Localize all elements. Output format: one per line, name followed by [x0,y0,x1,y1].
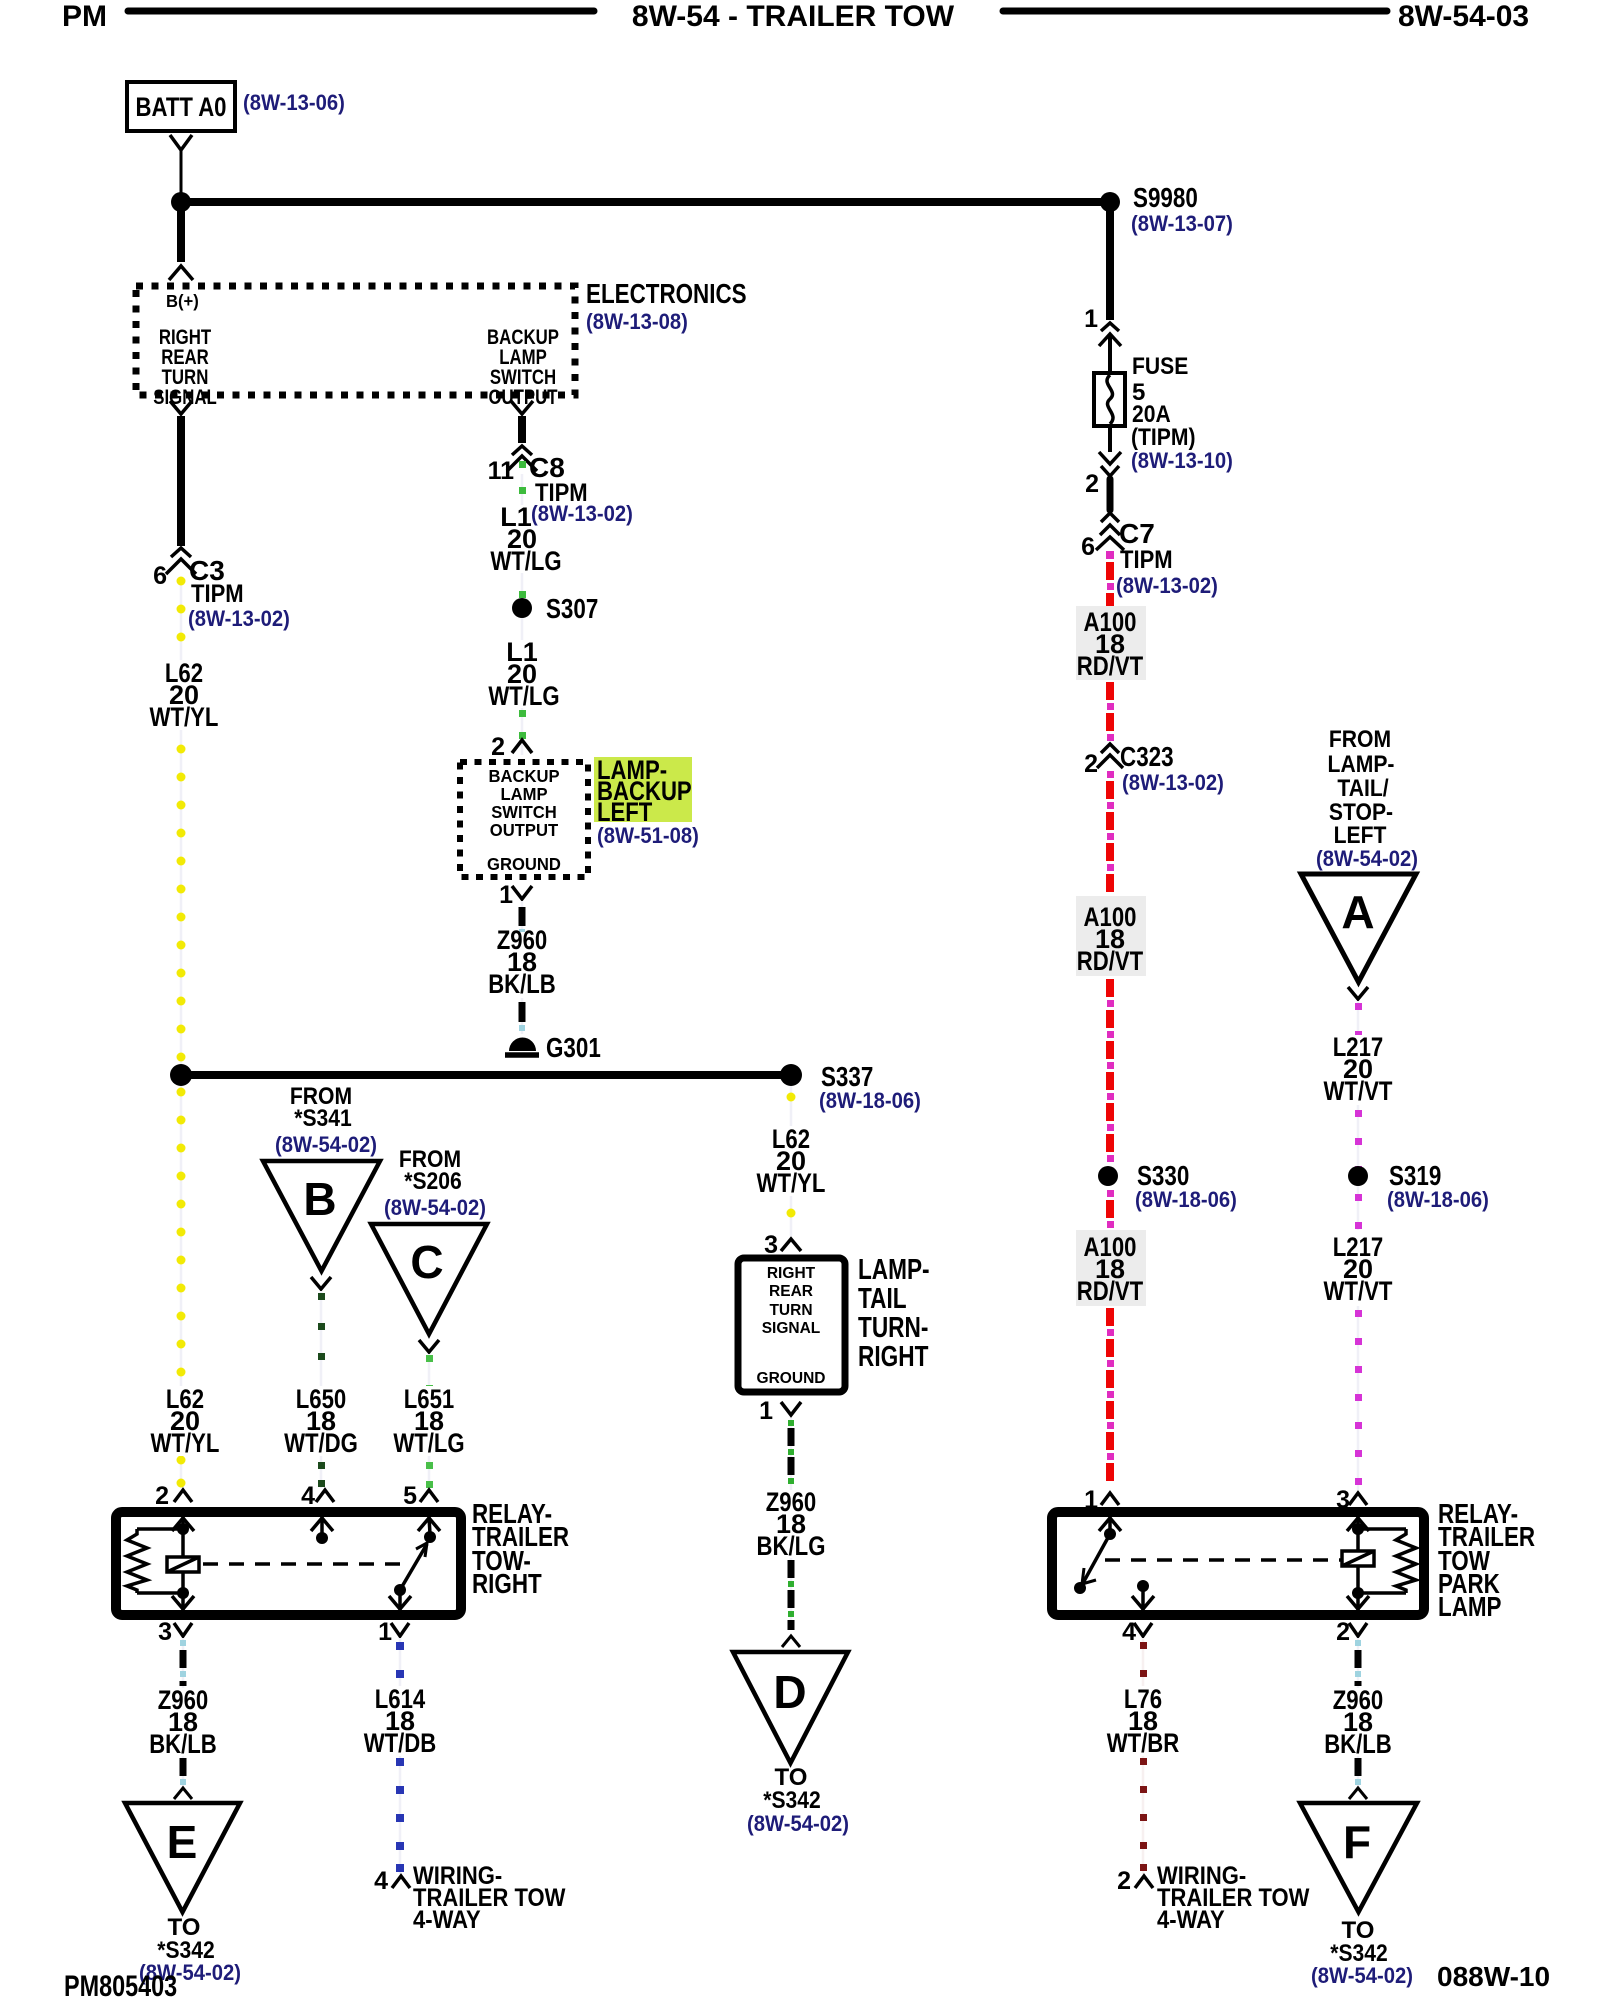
wire A100 18 RD/VT middle [1107,771,1114,1162]
label LAMP-TAIL TURN-RIGHT [858,1254,930,1373]
svg-text:BK/LB: BK/LB [1324,1729,1392,1759]
label S319 [1387,1160,1489,1212]
relay left pin4 stub [311,1517,333,1544]
label TO *S342 (D) [747,1764,849,1836]
label L614 18 WT/DB [362,1684,438,1758]
svg-text:F: F [1343,1816,1371,1868]
svg-text:3: 3 [158,1618,172,1646]
svg-text:(8W-18-06): (8W-18-06) [1387,1187,1489,1212]
module ELECTRONICS dotted box [136,286,575,409]
svg-text:6: 6 [153,562,167,590]
relay right dashed link [1105,1558,1342,1562]
header title 8W-54 - TRAILER TOW [632,0,955,33]
connector C323 label [1120,741,1224,795]
wire L614 18 WT/DB [396,1638,404,1874]
wire stub to C7 [1107,479,1114,510]
relay left dashed link [203,1562,400,1566]
svg-text:11: 11 [488,457,515,485]
label A100 18 RD/VT first [1076,606,1146,681]
ground G301 [505,1032,601,1063]
svg-text:(8W-13-06): (8W-13-06) [243,90,345,115]
splice S330 [1098,1166,1118,1186]
svg-text:2: 2 [491,733,505,761]
svg-text:TURN-: TURN- [858,1312,928,1344]
svg-text:WT/LG: WT/LG [488,681,559,711]
lamp backup left dotted box [460,762,588,877]
connector chevron below BATT A0 [170,135,192,150]
svg-text:5: 5 [403,1482,417,1510]
relay right pin3 arrow up [1347,1518,1369,1531]
svg-text:2: 2 [1336,1618,1350,1646]
svg-text:TAIL: TAIL [858,1283,907,1315]
relay left resistor [127,1529,183,1593]
connector C7 label [1116,518,1218,598]
svg-text:WT/YL: WT/YL [757,1168,826,1198]
wire L76 18 WT/BR [1140,1638,1147,1874]
svg-text:1: 1 [378,1618,392,1646]
reference (8W-13-06) [243,90,345,115]
svg-text:(8W-13-07): (8W-13-07) [1131,211,1233,236]
bus wire to S337 [181,1071,791,1079]
off-page connector E [125,1803,240,1912]
svg-text:8W-54 - TRAILER TOW: 8W-54 - TRAILER TOW [632,0,955,33]
svg-text:(8W-13-10): (8W-13-10) [1131,448,1233,473]
svg-text:BACKUP: BACKUP [488,766,559,786]
relay right junction dot top [1352,1523,1364,1535]
svg-text:LEFT: LEFT [1334,822,1387,849]
header rule left [128,8,594,15]
off-page connector B [263,1161,380,1271]
wire L217 20 WT/VT upper [1355,1001,1362,1236]
svg-text:(TIPM): (TIPM) [1131,424,1196,451]
svg-text:GROUND: GROUND [757,1370,826,1387]
svg-text:ELECTRONICS: ELECTRONICS [586,278,747,309]
svg-text:TAIL/: TAIL/ [1337,775,1388,802]
label TO *S342 (F) [1311,1917,1413,1988]
label L62 20 WT/YL upper [140,658,224,732]
svg-text:(8W-13-02): (8W-13-02) [188,606,290,631]
connector C3 label [188,555,290,631]
svg-text:FUSE: FUSE [1132,353,1188,380]
label A100 18 RD/VT second [1076,896,1146,976]
label L650 18 WT/DG [282,1384,362,1458]
svg-text:RIGHT: RIGHT [767,1265,816,1282]
svg-text:PM: PM [62,0,107,33]
pin chevron into ELECTRONICS [169,266,193,280]
svg-text:RIGHT: RIGHT [858,1341,929,1373]
bus wire A0 horizontal [181,198,1110,206]
connector C323 chevrons [1101,744,1119,753]
svg-text:FROM: FROM [1329,726,1391,753]
svg-text:2: 2 [1117,1867,1131,1895]
svg-text:A: A [1341,886,1374,938]
off-page connector C [371,1224,487,1334]
svg-text:SIGNAL: SIGNAL [762,1320,821,1337]
label FUSE 5 20A (TIPM) [1131,353,1233,473]
relay left pin2 arrow up [172,1518,194,1531]
svg-text:4-WAY: 4-WAY [1157,1906,1225,1934]
svg-text:*S341: *S341 [294,1105,352,1132]
svg-text:C7: C7 [1119,518,1155,549]
wire L217 20 WT/VT lower [1355,1236,1362,1490]
relay right pin4 stub [1132,1580,1154,1610]
chevron into F [1349,1788,1367,1799]
relay right coil [1342,1551,1374,1566]
svg-text:*S206: *S206 [404,1168,462,1195]
svg-text:1: 1 [1084,305,1098,333]
fuse pin 1 chevrons [1101,323,1119,331]
wire from BATT A0 to splice [180,150,183,196]
relay left junction dot bottom [177,1587,189,1599]
svg-text:(8W-54-02): (8W-54-02) [275,1132,377,1157]
svg-text:088W-10: 088W-10 [1437,1961,1550,1992]
svg-text:TURN: TURN [769,1302,812,1319]
svg-text:D: D [773,1666,806,1718]
svg-text:REAR: REAR [769,1283,813,1300]
svg-text:E: E [167,1816,198,1868]
svg-text:LAMP: LAMP [1438,1591,1502,1622]
svg-text:SIGNAL: SIGNAL [153,386,217,409]
svg-text:WT/VT: WT/VT [1324,1076,1393,1106]
relay right pin3 internal line [1356,1517,1360,1610]
label L62 20 WT/YL middle [752,1124,830,1198]
svg-text:WT/LG: WT/LG [490,546,561,576]
relay left pin3 arrow down [172,1596,194,1609]
svg-text:WT/VT: WT/VT [1324,1276,1393,1306]
svg-text:WT/YL: WT/YL [151,1428,220,1458]
svg-text:BK/LB: BK/LB [149,1729,217,1759]
label L62 20 WT/YL lower [144,1384,222,1458]
svg-text:S9980: S9980 [1133,182,1198,213]
svg-text:RD/VT: RD/VT [1077,651,1144,681]
svg-text:BK/LG: BK/LG [757,1531,826,1561]
wire L62 20 WT/YL lower-left segment [177,1086,186,1488]
svg-text:S307: S307 [546,593,598,624]
svg-text:(8W-54-02): (8W-54-02) [1316,846,1418,871]
label L217 20 WT/VT first [1322,1032,1396,1106]
relay right pin2 arrow down [1347,1596,1369,1609]
relay left coil [167,1557,199,1572]
wire Z960 18 BK/LB to E [180,1638,186,1790]
svg-text:2: 2 [1084,750,1098,778]
svg-text:BATT A0: BATT A0 [136,92,227,122]
wire Z960 18 BK/LB to G301 [519,901,525,1034]
svg-text:BK/LB: BK/LB [488,969,556,999]
svg-text:(8W-13-02): (8W-13-02) [531,501,633,526]
wire from S9980 down to fuse [1106,202,1114,320]
svg-text:4: 4 [374,1867,388,1895]
svg-text:(8W-18-06): (8W-18-06) [1135,1187,1237,1212]
label Z960 18 BK/LB [488,925,556,999]
connector C7 chevrons [1101,513,1119,522]
relay right resistor [1358,1529,1416,1593]
relay left pin5 stub and switch [389,1517,440,1610]
svg-text:RD/VT: RD/VT [1077,1276,1144,1306]
label ELECTRONICS [586,278,747,334]
label S337 [819,1061,921,1113]
svg-text:(8W-18-06): (8W-18-06) [819,1088,921,1113]
label S9980 [1131,182,1233,236]
junction dot at left end of bus [171,192,191,212]
svg-text:(8W-51-08): (8W-51-08) [597,823,699,848]
svg-text:WT/DB: WT/DB [364,1728,437,1758]
svg-text:8W-54-03: 8W-54-03 [1398,0,1529,33]
label RELAY-TRAILER TOW PARK LAMP [1438,1498,1535,1622]
connector C8 label [529,452,588,507]
relay trailer tow park lamp box [1052,1512,1424,1615]
label Z960 18 BK/LB right [1323,1685,1393,1759]
svg-text:PM805403: PM805403 [64,1970,177,2000]
connector C8 chevrons [512,446,532,455]
wire Z960 18 BK/LB to F [1355,1638,1361,1790]
lamp tail turn right box [738,1258,845,1392]
highlighted label LAMP-BACKUP LEFT [594,755,692,827]
svg-text:(8W-54-02): (8W-54-02) [384,1195,486,1220]
svg-text:(8W-13-02): (8W-13-02) [1122,770,1224,795]
svg-text:C323: C323 [1120,741,1174,772]
label WIRING-TRAILER TOW 4-WAY left [413,1862,566,1934]
svg-text:4: 4 [1122,1618,1136,1646]
off-page connector A [1301,874,1416,982]
header: page id PM [62,0,107,33]
label A100 18 RD/VT third [1076,1230,1146,1306]
svg-text:WT/BR: WT/BR [1107,1728,1180,1758]
svg-text:TIPM: TIPM [191,580,244,608]
svg-text:B(+): B(+) [166,291,199,311]
svg-text:OUTPUT: OUTPUT [490,820,559,840]
pin chevron out of ELECTRONICS backup lamp switch output [511,401,533,414]
splice S9980 [1100,192,1120,212]
label L1 20 WT/LG upper [490,502,561,576]
relay trailer tow right box [116,1512,461,1615]
chevron below B [311,1277,331,1289]
wire right rear turn signal output [177,416,185,546]
wire L62 20 WT/YL upper segment [177,577,186,1072]
chevron below C [419,1340,439,1352]
label FROM *S206 [384,1146,486,1220]
svg-text:(8W-54-02): (8W-54-02) [1311,1963,1413,1988]
wire into fuse [1108,334,1112,373]
svg-text:2: 2 [155,1482,169,1510]
wire bus down to ELECTRONICS B(+) [177,202,185,262]
relay left junction dot top [177,1523,189,1535]
svg-text:WT/YL: WT/YL [150,702,219,732]
off-page connector F [1300,1803,1417,1912]
wire Z960 18 BK/LG upper [788,1418,794,1630]
chevron below A [1348,987,1368,999]
svg-text:6: 6 [1081,533,1095,561]
wire A100 18 RD/VT lower [1107,1190,1114,1481]
svg-text:B: B [303,1173,336,1225]
svg-text:C: C [410,1236,443,1288]
wire A100 18 RD/VT upper [1106,551,1114,741]
svg-text:*S342: *S342 [763,1787,821,1814]
label Z960 18 BK/LB left [148,1685,218,1759]
label RELAY-TRAILER TOW-RIGHT [472,1498,569,1599]
wire L650 18 WT/DG [318,1291,325,1488]
svg-text:GROUND: GROUND [487,854,561,874]
label L1 20 WT/LG lower [488,637,559,711]
svg-text:SWITCH: SWITCH [491,802,557,822]
wire out of fuse [1108,426,1112,452]
pin chevron out of ELECTRONICS right rear turn signal [170,401,192,414]
label Z960 18 BK/LG [755,1487,827,1561]
label TO *S342 (E) [139,1914,241,1985]
svg-text:RD/VT: RD/VT [1077,946,1144,976]
label FROM LAMP-TAIL/STOP-LEFT [1316,726,1418,871]
svg-text:TIPM: TIPM [1120,546,1173,574]
splice S307 [512,598,532,618]
svg-text:WT/DG: WT/DG [284,1428,358,1458]
svg-text:(8W-13-02): (8W-13-02) [1116,573,1218,598]
chevron into D [782,1636,800,1647]
label L217 20 WT/VT second [1322,1230,1396,1306]
header sheet number 8W-54-03 [1398,0,1529,33]
svg-text:LAMP-: LAMP- [858,1254,930,1286]
svg-text:1: 1 [759,1397,773,1425]
label S330 [1135,1160,1237,1212]
relay left pin2 internal line [181,1517,185,1610]
svg-text:G301: G301 [546,1032,601,1063]
header rule right [1003,8,1387,15]
fuse 5 20A (TIPM) [1094,373,1125,426]
label FROM *S341 [275,1083,377,1157]
svg-text:1: 1 [499,881,513,909]
svg-text:(8W-13-08): (8W-13-08) [586,309,688,334]
label L76 18 WT/BR [1107,1684,1180,1758]
connector C3 chevrons [171,548,191,557]
svg-text:LAMP: LAMP [500,784,547,804]
svg-text:WT/LG: WT/LG [393,1428,464,1458]
svg-text:4: 4 [301,1482,315,1510]
junction dot at left end of S337 bus [170,1064,192,1086]
relay right junction dot bottom [1352,1587,1364,1599]
svg-text:RIGHT: RIGHT [472,1568,542,1599]
relay right pin1 stub and switch [1074,1517,1121,1594]
svg-text:OUTPUT: OUTPUT [488,386,557,409]
chevron into E [174,1788,192,1799]
svg-text:LAMP-: LAMP- [1328,751,1395,778]
fuse pin 2 chevrons down [1099,452,1121,464]
svg-text:4-WAY: 4-WAY [413,1906,481,1934]
wire L651 18 WT/LG [426,1354,433,1488]
wire L62 from S337 down [787,1086,796,1236]
wire L1 20 WT/LG upper segment [519,461,526,755]
splice S337 [780,1064,802,1086]
wire backup lamp switch output [518,416,526,443]
battery feed BATT A0 [127,82,235,131]
svg-text:(8W-54-02): (8W-54-02) [747,1811,849,1836]
svg-text:2: 2 [1085,470,1099,498]
splice S319 [1348,1166,1368,1186]
label L651 18 WT/LG [392,1384,468,1458]
off-page connector D [733,1652,848,1763]
label WIRING-TRAILER TOW 4-WAY right [1157,1862,1310,1934]
